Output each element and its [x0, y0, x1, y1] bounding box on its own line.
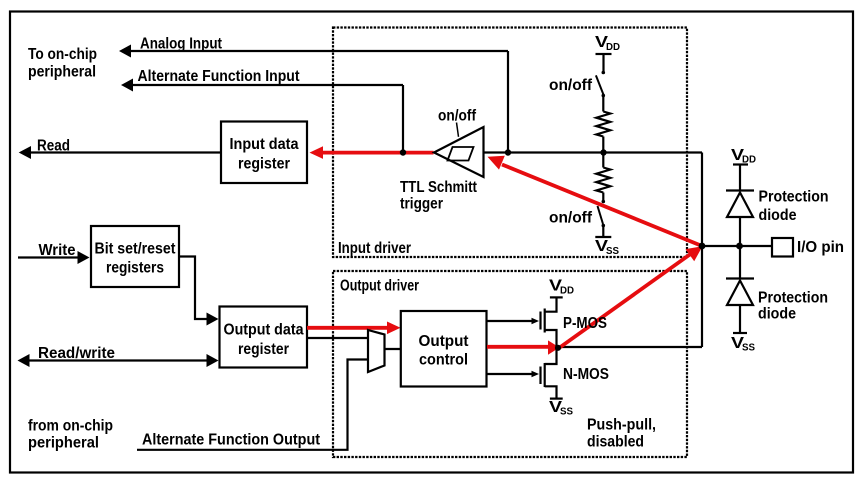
svg-text:registers: registers	[106, 260, 164, 277]
register: Input data register	[221, 122, 307, 184]
svg-text:Protection: Protection	[758, 290, 828, 307]
wire: drain line to pin column	[559, 346, 702, 348]
wire: output data register to mux	[307, 337, 368, 339]
svg-text:peripheral: peripheral	[28, 435, 99, 452]
node: diode tap	[736, 243, 743, 250]
svg-text:Input driver: Input driver	[338, 240, 411, 257]
svg-text:DD: DD	[606, 42, 620, 53]
node: AF input junction on red wire	[400, 149, 406, 155]
input driver dashed box	[333, 28, 687, 258]
svg-text:Output driver: Output driver	[340, 278, 419, 295]
svg-text:Alternate Function Output: Alternate Function Output	[142, 432, 321, 449]
svg-text:SS: SS	[742, 343, 755, 354]
op-amp: TTL Schmitt trigger	[434, 127, 484, 177]
wire: bit set/reset to output data register	[179, 257, 208, 320]
block: Output control	[401, 311, 487, 387]
register: Output data register	[220, 307, 308, 368]
svg-text:on/off: on/off	[549, 210, 593, 227]
svg-text:register: register	[238, 341, 289, 358]
svg-text:register: register	[238, 156, 290, 173]
svg-text:on/off: on/off	[438, 108, 477, 125]
svg-text:DD: DD	[560, 286, 574, 297]
register: Bit set/reset registers	[91, 226, 179, 287]
red path: schmitt output to input data register	[320, 151, 434, 155]
diode D2: lower protection diode	[739, 246, 741, 279]
svg-text:Push-pull,: Push-pull,	[587, 417, 656, 434]
svg-text:Input data: Input data	[230, 136, 299, 153]
svg-text:TTL Schmitt: TTL Schmitt	[400, 179, 478, 196]
svg-text:diode: diode	[759, 207, 797, 224]
svg-text:peripheral: peripheral	[28, 64, 96, 81]
node: analog tap junction	[505, 149, 511, 155]
transistor Q1: P-MOS	[487, 320, 533, 322]
svg-text:trigger: trigger	[400, 196, 443, 213]
resistor: pull-up	[596, 112, 610, 137]
node: I/O junction	[699, 243, 706, 250]
hysteresis symbol	[448, 147, 474, 161]
red path: output data register to output control	[307, 326, 390, 330]
svg-text:P-MOS: P-MOS	[563, 315, 607, 332]
red path: I/O pin to schmitt input	[502, 165, 702, 247]
wire: Analog Input vertical tap	[507, 51, 509, 152]
supply VSS (protection)	[733, 332, 747, 334]
red path: drain junction to I/O pin	[559, 253, 692, 348]
red path: output control to push-pull drains	[487, 345, 549, 349]
I/O pin square	[772, 238, 793, 257]
svg-text:I/O pin: I/O pin	[797, 239, 844, 256]
svg-text:Alternate Function Input: Alternate Function Input	[138, 68, 301, 85]
node: drain junction	[555, 345, 561, 351]
output driver dashed box	[333, 271, 687, 457]
node: pull junction	[600, 149, 606, 155]
wire: schmitt input line to pin column	[484, 151, 703, 153]
svg-text:Output: Output	[419, 333, 470, 350]
svg-text:N-MOS: N-MOS	[563, 366, 609, 383]
supply VDD (P-MOS)	[550, 296, 563, 298]
svg-text:Output data: Output data	[224, 322, 304, 339]
svg-text:from on-chip: from on-chip	[28, 418, 113, 435]
transistor Q2: N-MOS	[487, 373, 533, 375]
svg-text:diode: diode	[758, 306, 796, 323]
wire: mux to output control	[385, 348, 402, 350]
svg-text:control: control	[419, 352, 468, 369]
svg-text:To on-chip: To on-chip	[28, 46, 97, 63]
mux	[368, 330, 385, 372]
pointer line from on/off to schmitt	[457, 123, 459, 137]
svg-text:SS: SS	[560, 407, 573, 418]
diode D1: upper protection diode	[726, 189, 754, 191]
wire: pin column vertical	[701, 153, 703, 348]
svg-text:SS: SS	[606, 246, 619, 257]
svg-text:disabled: disabled	[587, 434, 644, 451]
wire: Alternate Function Input vertical tap	[402, 85, 404, 152]
resistor: pull-down	[602, 153, 604, 168]
supply VSS (N-MOS)	[550, 398, 563, 400]
svg-text:on/off: on/off	[549, 77, 593, 94]
wire: to I/O pin	[702, 245, 772, 247]
svg-text:Bit set/reset: Bit set/reset	[95, 241, 177, 258]
svg-text:Protection: Protection	[759, 189, 829, 206]
supply VSS (pull-down)	[595, 236, 611, 238]
